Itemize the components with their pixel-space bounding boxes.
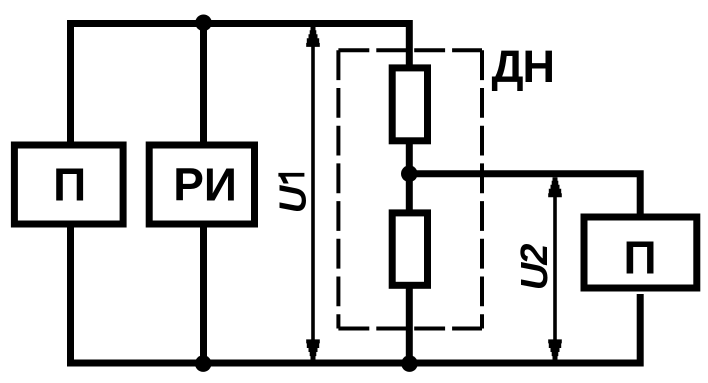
- svg-text:ДН: ДН: [492, 41, 555, 92]
- svg-text:РИ: РИ: [173, 159, 237, 211]
- svg-text:U2: U2: [514, 244, 556, 290]
- svg-text:П: П: [623, 232, 656, 284]
- svg-text:U: U: [273, 184, 315, 213]
- svg-text:П: П: [53, 159, 86, 211]
